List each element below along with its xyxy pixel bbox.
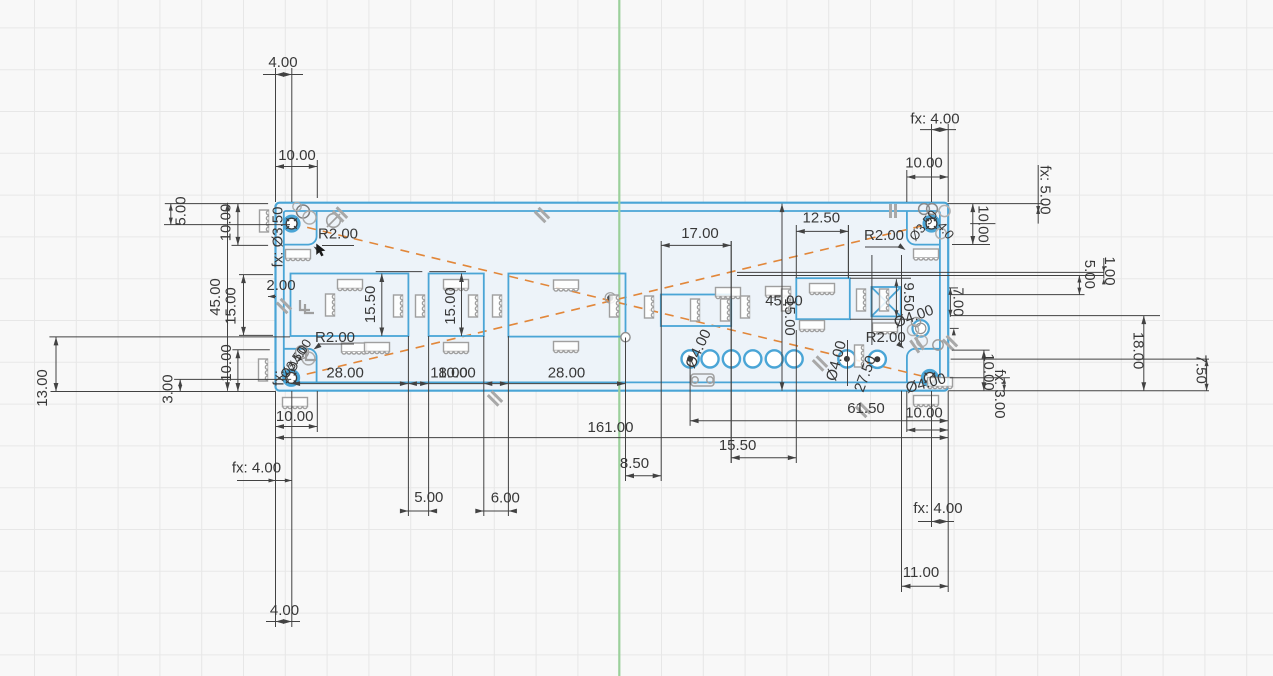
boss circle at 920.7,328.4 xyxy=(913,320,929,336)
inner wall rectangle (2.00 offset) xyxy=(284,211,940,382)
pocket B xyxy=(429,274,484,337)
svg-text:61.50: 61.50 xyxy=(847,400,885,417)
dim 10.00 bottom-right side xyxy=(952,349,989,351)
svg-text:10.00: 10.00 xyxy=(905,404,943,421)
mouse cursor xyxy=(316,244,325,257)
dim 18.00 right xyxy=(951,315,1160,317)
dim 10.00 bottom-left xyxy=(275,391,277,627)
sketch Y axis (green) xyxy=(618,0,620,676)
svg-text:18.00: 18.00 xyxy=(1130,332,1147,370)
dim 15.50 pocket A xyxy=(376,271,423,273)
dim fx 4.00 bottom-left xyxy=(237,480,292,482)
bottom-left screw hole xyxy=(284,371,299,386)
parallel constraint hatch marks xyxy=(337,207,348,218)
gray circles near bottom-right hole xyxy=(907,324,918,335)
dim 7.00 crossed square height xyxy=(949,287,958,289)
gray circles near bottom-left hole xyxy=(296,346,309,359)
svg-text:161.00: 161.00 xyxy=(588,419,634,436)
pocket C xyxy=(508,274,625,337)
gray dogbone glyph below hole row xyxy=(692,377,698,383)
gray circles near top-right hole xyxy=(919,204,930,215)
dim 4.00 top-left xyxy=(275,68,277,202)
dim fx 5.00 top-right xyxy=(948,203,1044,205)
outer profile rectangle (161.00 x 45.00) xyxy=(276,203,949,391)
construction midpoint dot xyxy=(607,295,613,301)
svg-text:fx: 4.00: fx: 4.00 xyxy=(232,460,281,477)
top-left corner boss xyxy=(284,211,317,245)
svg-text:8.50: 8.50 xyxy=(620,455,649,472)
dim 61.50 xyxy=(689,359,691,426)
pocket E (12.50 wide) xyxy=(796,278,850,319)
svg-text:4.00: 4.00 xyxy=(270,602,299,619)
gray nut circle near top-left xyxy=(327,214,341,228)
dim 45.00 left xyxy=(227,203,229,391)
svg-text:2.00: 2.00 xyxy=(266,277,295,294)
vertical parallel mark near top-right xyxy=(889,204,892,218)
dim 10.00 left upper xyxy=(232,244,269,246)
dim 10.00 left lower xyxy=(232,349,269,351)
dim 9.50 pocket E height xyxy=(850,277,911,279)
svg-text:15.50: 15.50 xyxy=(719,437,757,454)
hole circle at 877.3 xyxy=(869,351,886,368)
dim 15.00 pocket B xyxy=(429,271,466,273)
extension lines crossed square xyxy=(871,255,873,345)
svg-text:10.00: 10.00 xyxy=(218,344,235,382)
svg-text:45.00: 45.00 xyxy=(765,292,803,309)
svg-text:15.00: 15.00 xyxy=(222,287,239,325)
dim 6.00 bottom xyxy=(476,510,516,512)
svg-text:12.50: 12.50 xyxy=(803,209,841,226)
dim fx 3.00 bottom-right side xyxy=(950,377,1010,379)
svg-text:10.00: 10.00 xyxy=(438,364,476,381)
svg-text:6.00: 6.00 xyxy=(491,489,520,506)
hole row Ø4.00 circles xyxy=(682,350,699,367)
svg-text:fx: 4.00: fx: 4.00 xyxy=(910,111,959,128)
svg-text:15.50: 15.50 xyxy=(362,286,379,324)
svg-text:7.50: 7.50 xyxy=(1193,355,1210,384)
dim 10.00 bottom-right boss xyxy=(906,391,908,432)
svg-text:5.00: 5.00 xyxy=(414,489,443,506)
dim fx 4.00 top-right xyxy=(931,124,933,202)
constraint badges - vertical combs xyxy=(260,210,269,232)
dim 15.00 left xyxy=(239,274,273,276)
svg-text:R2.00: R2.00 xyxy=(315,329,355,346)
svg-text:R2.00: R2.00 xyxy=(864,227,904,244)
dim 11.00 bottom-right xyxy=(901,255,903,345)
svg-text:28.00: 28.00 xyxy=(326,364,364,381)
svg-text:3.00: 3.00 xyxy=(160,374,177,403)
svg-text:10.00: 10.00 xyxy=(905,154,943,171)
dim fx 4.00 bottom-right xyxy=(931,391,933,527)
dim 15.50 bottom xyxy=(730,241,732,463)
svg-text:R2.00: R2.00 xyxy=(318,225,358,242)
svg-text:fx: Ø3.50: fx: Ø3.50 xyxy=(269,207,286,268)
hole circle at 846.9 xyxy=(838,350,855,367)
pocket A (15.50 deep) xyxy=(291,274,409,337)
dim 13.00 far left xyxy=(49,336,290,338)
bottom-right corner boss xyxy=(907,349,940,383)
gray L glyphs top-left xyxy=(300,300,310,310)
svg-text:fx: 5.00: fx: 5.00 xyxy=(1037,165,1054,214)
dim 1.00 right xyxy=(737,271,1104,273)
pocket D (17.00 wide) xyxy=(661,295,731,327)
svg-text:17.00: 17.00 xyxy=(681,225,719,242)
dim 17.00 pocket D xyxy=(660,241,662,481)
dim 5.00 right xyxy=(951,294,1085,296)
dim 8.50 xyxy=(626,475,662,477)
bottom-left corner boss xyxy=(284,349,317,383)
svg-text:7.00: 7.00 xyxy=(950,287,967,316)
extension lines below pockets xyxy=(407,336,409,516)
svg-text:fx: 3.00: fx: 3.00 xyxy=(991,369,1008,418)
svg-text:fx: 4.00: fx: 4.00 xyxy=(913,500,962,517)
crossed square F xyxy=(871,287,900,316)
gray L glyphs bottom-left xyxy=(306,350,316,360)
svg-text:10.00: 10.00 xyxy=(276,408,314,425)
top-left screw hole Ø3.50 xyxy=(284,216,299,231)
dim 161.00 overall width xyxy=(276,437,949,439)
top-right screw hole xyxy=(924,216,939,231)
dim 3.00 far left xyxy=(174,378,291,380)
svg-text:fx:: fx: xyxy=(270,370,287,386)
top-right corner boss xyxy=(907,211,940,245)
svg-text:5.00: 5.00 xyxy=(173,196,190,225)
svg-text:5.00: 5.00 xyxy=(1081,260,1098,289)
constraint badges - horizontal combs xyxy=(286,250,311,259)
svg-text:45.00: 45.00 xyxy=(207,278,224,316)
dim 10.00 top-right side xyxy=(952,244,990,246)
svg-text:13.00: 13.00 xyxy=(34,369,51,407)
bottom-right screw hole xyxy=(922,371,937,386)
construction diagonal TL-hole to BR-hole xyxy=(292,224,930,378)
dim 5.00 left xyxy=(165,203,268,205)
svg-text:15.00: 15.00 xyxy=(442,287,459,325)
svg-text:1.00: 1.00 xyxy=(1101,256,1118,285)
svg-text:10.00: 10.00 xyxy=(975,205,992,243)
dim 10.00 top-left xyxy=(316,160,318,198)
dim 5.00 bottom xyxy=(400,510,437,512)
short line at boss circle level right xyxy=(950,327,959,329)
dim 12.50 pocket E xyxy=(795,225,797,278)
dim 4.00 bottom-left xyxy=(266,621,300,623)
chain dim 28.00 18.00 10.00 28.00 xyxy=(292,383,626,385)
svg-text:28.00: 28.00 xyxy=(548,364,586,381)
gray circles near top-left hole xyxy=(297,205,310,218)
dim 10.00 top-right boss xyxy=(906,170,908,202)
svg-text:11.00: 11.00 xyxy=(903,564,939,581)
pocket C endpoint xyxy=(621,333,630,342)
construction diagonal BL-hole to TR-hole xyxy=(291,224,931,378)
svg-text:10.00: 10.00 xyxy=(278,147,316,164)
svg-text:4.00: 4.00 xyxy=(268,54,297,71)
dim 7.50 right xyxy=(951,358,1209,360)
